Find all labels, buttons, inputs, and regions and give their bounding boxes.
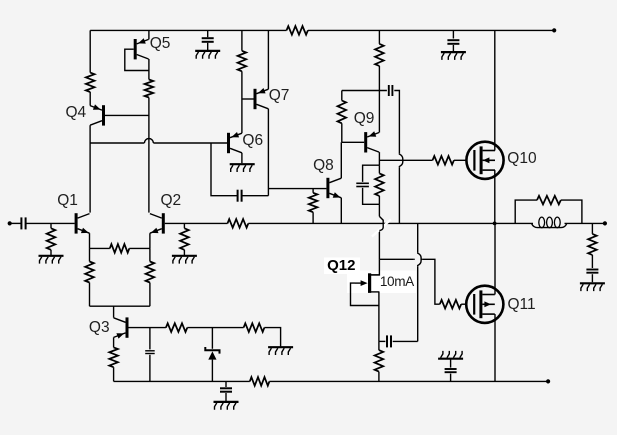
wire: zobel drop xyxy=(591,223,593,234)
ground: input shunt xyxy=(39,256,64,264)
wire: inv ground to cap xyxy=(450,359,452,368)
wire: Q8 base R drop xyxy=(312,189,314,193)
transistor Q10 (N-MOSFET) xyxy=(466,142,503,179)
wire: Q11 gate takeoff xyxy=(379,258,413,260)
wire: x418 column lower xyxy=(417,266,419,341)
wire: source node to cap xyxy=(379,340,386,342)
wire: Q1 emitter node to R xyxy=(90,247,110,249)
wire: gate R to Q10 xyxy=(454,159,466,161)
wire: Q6 emitter up to Q7 base node xyxy=(241,99,243,133)
wire: Q10 source to bus xyxy=(494,170,496,223)
wire: rail cap stub right xyxy=(452,30,454,38)
node: output junction xyxy=(493,222,497,226)
resistor: Q11 gate stopper xyxy=(440,300,461,309)
wire: top positive rail right section xyxy=(308,29,554,31)
resistor: bias network (parallel RC) xyxy=(375,173,384,196)
wire: top rail to Q5 emitter xyxy=(148,30,150,39)
wire: Q7 collector to Q8 base xyxy=(268,188,326,190)
label Q9 xyxy=(354,111,375,127)
capacitor: top rail decoupling right xyxy=(447,40,459,44)
wire: Q3 emitter down xyxy=(113,337,115,347)
resistor: Q10 gate stopper xyxy=(433,156,454,165)
wire: R to Q2 emitter node xyxy=(129,247,150,249)
wire: Q7 collector down xyxy=(267,109,269,196)
wire: zobel R to cap xyxy=(591,255,593,268)
wire: R top stub xyxy=(378,165,380,173)
ground: Q6 collector xyxy=(230,164,255,172)
label Q3 xyxy=(89,320,110,336)
wire: zener top stub xyxy=(211,328,213,349)
resistor: Q3 emitter xyxy=(109,347,118,367)
node: output terminal xyxy=(603,221,607,225)
wire: shunt R to ground xyxy=(50,250,52,256)
wire: Q12 gate-source loop xyxy=(351,283,379,305)
resistor: top rail series xyxy=(287,26,308,35)
resistor: tail right xyxy=(146,262,155,283)
label Q1 xyxy=(57,193,78,209)
wire: Q5 base loop xyxy=(125,49,149,70)
resistor: Q4 emitter degeneration xyxy=(86,73,95,92)
ground: Zobel xyxy=(580,283,605,291)
transistor Q9 (PNP) xyxy=(364,131,379,152)
wire: Q1 emitter node down xyxy=(89,248,91,261)
label Q4 xyxy=(66,105,87,121)
wire: R bottom stub xyxy=(378,196,380,204)
wire hop: x418 over Q11 gate wire xyxy=(418,252,421,266)
node: bottom rail right endpoint xyxy=(546,379,550,383)
wire: cap to x418 column xyxy=(393,340,418,342)
wire hop: Q11 gate wire over x418 column xyxy=(413,258,422,260)
wire: cap to ground right xyxy=(452,45,454,51)
wire: Q6 collector to ground xyxy=(241,153,243,163)
capacitor: input coupling xyxy=(21,217,25,229)
label Q11 xyxy=(508,297,536,313)
wire: Q4 collector to Q6 base (right part) xyxy=(153,142,227,144)
node: input terminal xyxy=(8,221,12,225)
wire: R stub top xyxy=(378,341,380,350)
resistor: input shunt to ground xyxy=(47,228,56,250)
resistor: feedback series on bus xyxy=(228,219,249,228)
wire: RC cap bottom xyxy=(363,188,380,204)
label Q2 xyxy=(161,193,182,209)
wire: bias node horizontal xyxy=(342,90,387,92)
wire: Q1 emitter down xyxy=(89,233,91,248)
inductor: output isolation coil xyxy=(532,217,567,228)
wire: x149 column below hop to Q2 collector xyxy=(148,150,150,213)
wire: Q9 upper node wire xyxy=(341,91,343,101)
diode D1 (zener, bias reference) xyxy=(205,347,219,381)
capacitor: top rail decoupling left xyxy=(202,38,214,42)
transistor Q2 (NPN, mirrored) xyxy=(150,213,165,233)
transistor Q4 (PNP) xyxy=(90,104,105,125)
wire: Q4 collector to Q6 base (left part) xyxy=(90,142,144,144)
wire: tail left to common xyxy=(89,283,91,307)
transistor Q8 (NPN) xyxy=(326,178,341,198)
wire: Q3 base cap drop xyxy=(149,328,151,350)
wire: R to Q2 collector column xyxy=(148,98,150,137)
wire: Q4 collector down to node xyxy=(89,125,91,212)
node: top rail right endpoint xyxy=(552,28,556,32)
resistor: output damping (parallel with L) xyxy=(537,196,561,205)
resistor: Q9 emitter feed xyxy=(375,44,384,66)
wire: Q10 gate wire xyxy=(379,159,432,161)
resistor: bottom rail series xyxy=(250,377,270,386)
transistor Q3 (PNP, mirrored) xyxy=(114,317,129,338)
wire: cap to ground left xyxy=(207,43,209,50)
white slash artifact at bus crossing xyxy=(372,220,391,237)
wire: RC top tap xyxy=(363,165,380,182)
wire: Q7 base xyxy=(242,98,254,100)
wire: comp cap to Q7 collector column xyxy=(242,195,269,197)
wire: Q2 shunt to ground xyxy=(183,250,185,256)
ground: Q3 bias network xyxy=(268,347,293,355)
wire: Q12 source down xyxy=(378,292,380,342)
label Q7 xyxy=(269,88,290,104)
wire: Q11 gate to corner xyxy=(422,259,440,304)
resistor: tail left xyxy=(85,262,94,283)
wire: zobel cap to ground xyxy=(591,274,593,282)
ground: top rail decoupling left xyxy=(195,51,220,59)
wire: Q2 emitter node down xyxy=(149,248,151,261)
transistor Q6 (PNP) xyxy=(227,132,242,153)
wire: cap to x399 column xyxy=(394,91,399,154)
wire: x418 column upper xyxy=(417,223,419,252)
transistor Q11 (P-MOSFET) xyxy=(466,286,503,323)
capacitor: Miller compensation xyxy=(238,190,242,202)
wire: Q3 emitter R to bottom rail xyxy=(113,367,115,381)
ground: bottom decoupling (inverted) xyxy=(438,351,463,359)
capacitor: Q3 base bypass xyxy=(145,351,155,354)
wire: Q8 R to bus xyxy=(312,212,314,223)
resistor: Q8 base-emitter xyxy=(309,193,318,212)
wire: rail cap stub xyxy=(225,381,227,387)
wire: Q2 base to bus xyxy=(165,222,228,224)
wire: zener to R2 xyxy=(187,327,243,329)
wire: Q11 drain to bus xyxy=(494,223,496,294)
capacitor: bias bypass small xyxy=(389,85,393,96)
transistor Q12 (JFET current source) xyxy=(355,273,379,293)
wire: bus hop to Q11 gate node xyxy=(378,230,380,259)
wire: top positive rail left section xyxy=(90,29,286,31)
capacitor: Q12 bypass xyxy=(387,335,391,347)
wire: rail cap stub left xyxy=(207,30,209,37)
wire: Q3 base line xyxy=(129,327,166,329)
label Q12 xyxy=(327,258,355,273)
wire: R to Q7 base node xyxy=(241,71,243,99)
wire: x399 column to bus xyxy=(398,167,400,223)
wire: bottom negative rail left xyxy=(114,380,250,382)
wire: R2 to ground stub xyxy=(264,328,280,347)
wire: tail right to common xyxy=(149,283,151,307)
capacitor: Zobel xyxy=(586,270,598,273)
capacitor: bottom rail decoupling right xyxy=(445,369,457,372)
wire: Q1 base shunt R drop xyxy=(50,223,52,228)
wire: Q9 collector down xyxy=(378,152,380,165)
wire: cap to bottom rail xyxy=(450,374,452,382)
wire: Q10 drain to rail xyxy=(494,30,496,150)
wire: tail common node xyxy=(90,305,150,307)
wire: Q5 collector down xyxy=(148,59,150,80)
wire: input to coupling cap xyxy=(10,222,22,224)
resistor: Q3 base series 2 xyxy=(244,323,265,332)
wire: rail to R(Q7) xyxy=(241,30,243,50)
resistor: Q3 base series 1 xyxy=(166,323,187,332)
wire: Q2 base shunt drop xyxy=(183,223,185,228)
resistor: emitter degeneration Q1-Q2 xyxy=(110,244,130,253)
resistor: Q12 source xyxy=(375,350,384,372)
wire: bus feedback to output section xyxy=(248,222,605,224)
wire: cap to ground xyxy=(225,393,227,401)
wire: x149 through hop xyxy=(148,136,150,150)
wire: R to Q9 emitter xyxy=(378,66,380,133)
wire: Q2 emitter down xyxy=(149,233,151,248)
label 10mA xyxy=(380,275,414,289)
wire hop: bias column over feedback bus xyxy=(379,216,383,230)
wire: Q3 base cap to rail xyxy=(149,355,151,382)
wire: R to bottom rail xyxy=(378,372,380,382)
wire: gate R to Q11 xyxy=(461,303,466,305)
resistor: Q9 base upper xyxy=(338,101,347,124)
wire: Q8 collector up to Q9 base node xyxy=(340,142,342,178)
ground: top rail decoupling right xyxy=(441,52,466,60)
ground: bottom rail decoupling xyxy=(214,402,239,410)
resistor: Zobel xyxy=(588,234,597,255)
capacitor: bias network (parallel RC) xyxy=(356,183,369,186)
white backing for Q12 label xyxy=(324,258,360,275)
wire: Q7 emitter up to rail xyxy=(267,30,269,89)
wire hop: x399 over Q10 gate wire xyxy=(399,153,402,167)
wire: L-R left post xyxy=(515,200,537,223)
label Q8 xyxy=(313,158,334,174)
wire: Q6 base comp drop xyxy=(211,143,238,196)
wire: rail to R(Q9) xyxy=(378,30,380,44)
label Q5 xyxy=(150,36,171,52)
resistor: Q2 base shunt (feedback) xyxy=(180,228,189,250)
wire: tail node to Q3 collector xyxy=(113,306,115,318)
wire: Q9 collector column to bus hop xyxy=(378,204,380,216)
resistor: Q7 base bias xyxy=(238,51,247,72)
wire: bottom negative rail right xyxy=(269,380,548,382)
wire: Q9 base R to node xyxy=(341,123,343,142)
wire: top rail to R (Q4 emitter branch) xyxy=(89,30,91,72)
label Q6 xyxy=(242,133,263,149)
wire: Q8 emitter down to bus xyxy=(340,198,342,224)
transistor Q5 (PNP diode-connected) xyxy=(134,38,149,59)
white backing for 10mA label and Q12 symbol xyxy=(347,271,416,294)
transistor Q7 (PNP) xyxy=(254,88,269,109)
wire: coupling cap to Q1 base xyxy=(26,222,75,224)
wire: Q4 base to x149 column xyxy=(105,114,149,116)
transistor Q1 (NPN) xyxy=(75,213,90,233)
wire hop: over Q2 collector column xyxy=(144,139,153,144)
wire: Q11 source to bottom rail xyxy=(494,314,496,381)
wire: node to Q12 drain xyxy=(371,259,379,275)
capacitor: bottom rail decoupling xyxy=(220,388,232,391)
wire: R to Q4 emitter xyxy=(89,92,91,106)
label Q10 xyxy=(507,151,536,167)
resistor: Q5/Q2 collector load xyxy=(145,80,154,98)
wire: Q9 base xyxy=(342,141,364,143)
wire: L-R top right xyxy=(561,200,582,223)
ground: Q2 base shunt xyxy=(172,256,197,264)
